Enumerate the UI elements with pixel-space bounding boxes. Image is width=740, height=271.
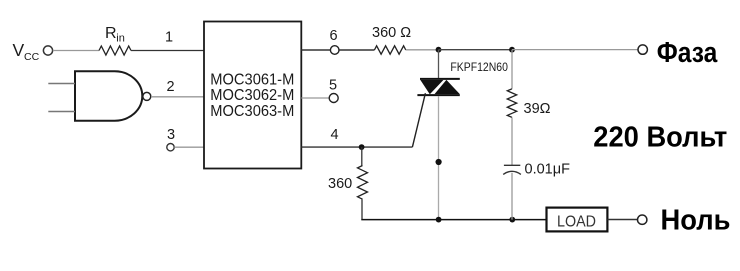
svg-text:0.01μF: 0.01μF: [525, 162, 571, 178]
svg-text:R: R: [105, 25, 117, 42]
junction dot rail-triac: [436, 217, 442, 223]
svg-text:MOC3063-M: MOC3063-M: [210, 103, 294, 120]
svg-text:39Ω: 39Ω: [524, 101, 551, 117]
svg-text:MOC3062-M: MOC3062-M: [210, 87, 294, 104]
nand input wire top: [48, 83, 75, 85]
wire R39 to cap: [511, 117, 513, 165]
terminal pin 5: [329, 94, 338, 103]
wire node A to node B: [439, 49, 513, 51]
svg-text:4: 4: [331, 127, 339, 143]
capacitor C1 top plate: [504, 164, 520, 166]
capacitor C1 bottom plate: [503, 171, 521, 174]
nand input wire bottom: [48, 111, 75, 113]
wire pin 6 to R 360: [339, 49, 374, 51]
nand gate U2: [75, 71, 142, 120]
triac Q1 left triangle: [420, 80, 443, 94]
svg-text:2: 2: [167, 79, 175, 95]
terminal pin 3: [167, 144, 174, 151]
wire Vcc to Rin: [53, 50, 99, 52]
wire cap to rail: [511, 173, 513, 220]
svg-text:3: 3: [167, 127, 175, 143]
wire node B to Faza terminal: [512, 49, 638, 51]
wire pin 5: [301, 97, 329, 99]
node B junction dot: [509, 47, 515, 53]
wire triac bottom to rail: [438, 96, 440, 220]
svg-text:MOC3061-M: MOC3061-M: [210, 71, 294, 88]
svg-text:220 Вольт: 220 Вольт: [593, 122, 727, 154]
svg-text:FKPF12N60: FKPF12N60: [450, 60, 508, 74]
resistor 360 vertical: [358, 166, 368, 200]
wire pin 6 to terminal: [301, 49, 330, 51]
triac Q1 right triangle: [435, 80, 460, 94]
LOAD box: [547, 208, 608, 232]
svg-text:6: 6: [330, 28, 338, 44]
wire branch down from pin4: [361, 147, 363, 165]
wire nand to pin 2: [151, 96, 204, 98]
junction dot pin4 branch: [359, 144, 365, 150]
wire R360v to rail: [361, 199, 363, 219]
svg-text:V: V: [13, 40, 25, 60]
node A junction dot: [436, 47, 442, 53]
terminal Nol: [638, 215, 647, 224]
terminal Vcc: [43, 46, 52, 55]
svg-text:5: 5: [329, 78, 337, 94]
resistor 360 Ohm top: [374, 46, 405, 54]
label Rin: [105, 25, 125, 45]
svg-text:Фаза: Фаза: [657, 37, 718, 69]
wire R360 to node A: [406, 49, 439, 51]
junction dot rail-snubber: [509, 217, 515, 223]
wire LOAD to Nol terminal: [607, 219, 637, 221]
resistor Rin: [99, 46, 131, 55]
junction dot mid triac wire: [436, 159, 442, 165]
terminal pin 6: [330, 46, 339, 55]
svg-text:CC: CC: [24, 51, 40, 63]
triac Q1 bottom bar: [417, 94, 459, 96]
optocoupler U1 MOC306x-M box: [204, 22, 301, 169]
wire node B to R39: [511, 50, 513, 89]
terminal Faza: [638, 45, 647, 54]
triac Q1 top bar: [420, 78, 460, 80]
nand output bubble: [143, 92, 151, 100]
svg-text:360 Ω: 360 Ω: [372, 25, 411, 41]
svg-text:in: in: [116, 33, 125, 45]
resistor R39: [507, 89, 516, 118]
svg-text:Ноль: Ноль: [661, 204, 731, 236]
triac gate wire: [412, 93, 425, 147]
svg-text:360: 360: [328, 176, 352, 192]
bottom rail wire: [361, 219, 546, 221]
svg-text:LOAD: LOAD: [557, 213, 596, 230]
wire pin 4: [301, 146, 412, 148]
wire pin 3: [174, 146, 204, 148]
net Vcc label: [13, 40, 40, 63]
wire triac anode top: [438, 50, 440, 79]
svg-text:1: 1: [165, 30, 173, 46]
wire Rin to pin 1: [131, 50, 204, 52]
